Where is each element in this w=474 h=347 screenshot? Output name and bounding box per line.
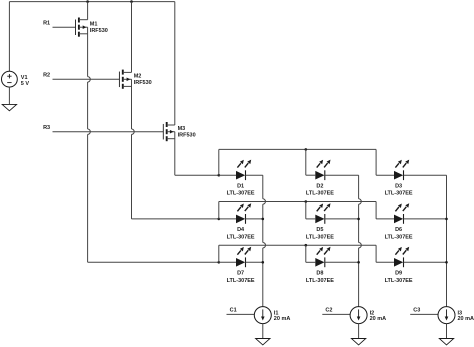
wire row 2 mid drop (305, 202, 307, 219)
ground I3 (439, 339, 453, 345)
label I2 20 mA (370, 311, 387, 322)
wire V1 positive lead (8, 2, 10, 72)
wire I1 to ground (262, 324, 264, 339)
svg-text:M1: M1 (90, 22, 98, 28)
node drain M2 on rail (130, 0, 133, 3)
node row 1 anode junction (218, 174, 221, 177)
wire row 1 right drop (375, 149, 377, 175)
node column C2 row3 junction (357, 261, 360, 264)
node row 3 anode junction (218, 261, 221, 264)
label D4 (227, 227, 255, 240)
label I3 20 mA (458, 311, 474, 322)
svg-text:D1: D1 (237, 183, 244, 189)
voltage source V1 5 V (1, 71, 17, 87)
wire row 1 riser (218, 149, 220, 175)
svg-text:R2: R2 (43, 73, 50, 79)
ground V1 (2, 104, 16, 110)
wire label stub C2 (322, 313, 350, 315)
LED D7 LTL-307EE (236, 247, 251, 268)
svg-text:IRF530: IRF530 (134, 80, 152, 86)
transistor M2 IRF530 (119, 70, 131, 89)
svg-text:D8: D8 (316, 270, 323, 276)
wire D9 cathode (404, 261, 447, 263)
svg-text:LTL-307EE: LTL-307EE (385, 234, 413, 240)
label D1 (227, 183, 255, 196)
svg-text:LTL-307EE: LTL-307EE (385, 191, 413, 197)
LED D6 LTL-307EE (394, 203, 409, 224)
current source I2 20 mA (350, 307, 367, 324)
node column C1 row2 junction (262, 218, 265, 221)
svg-text:R1: R1 (43, 21, 50, 27)
wire row 1 mid drop (305, 149, 307, 175)
wire D5 cathode (325, 218, 359, 220)
label D6 (385, 227, 413, 240)
wire label stub C1 (227, 313, 255, 315)
wire drain M1 to rail (87, 2, 89, 20)
wire row 2 bypass bus (219, 201, 376, 203)
node drain M1 on rail (86, 0, 89, 3)
wire column C2 vertical (358, 175, 360, 199)
wire V1 negative lead (8, 87, 10, 104)
wire row 2 anode stub (219, 218, 236, 220)
svg-text:5 V: 5 V (21, 81, 30, 87)
label D7 (227, 270, 255, 283)
label M2 IRF530 (134, 74, 152, 87)
LED D5 LTL-307EE (315, 203, 330, 224)
svg-text:D2: D2 (316, 183, 323, 189)
svg-text:D7: D7 (237, 270, 244, 276)
wire I2 to ground (358, 324, 360, 339)
svg-text:20 mA: 20 mA (274, 316, 291, 322)
LED D1 LTL-307EE (236, 160, 251, 181)
LED D2 LTL-307EE (315, 160, 330, 181)
ground I1 (256, 339, 270, 345)
wire D1 cathode (246, 174, 263, 176)
svg-text:IRF530: IRF530 (178, 133, 196, 139)
wire row 1 anode stub (219, 174, 236, 176)
wire row 3 anode stub (219, 261, 236, 263)
current source I3 20 mA (438, 307, 455, 324)
LED D9 LTL-307EE (394, 247, 409, 268)
wire row 2 riser (218, 202, 220, 219)
wire row 1 bypass bus (219, 148, 376, 150)
wire gate net R2 (53, 78, 120, 80)
label M3 IRF530 (178, 126, 196, 139)
wire row 3 right drop (375, 245, 377, 262)
label D8 (306, 270, 334, 283)
label I1 20 mA (274, 311, 291, 322)
svg-text:C1: C1 (230, 308, 237, 314)
svg-text:R3: R3 (43, 125, 50, 131)
node column C3 row2 junction (445, 218, 448, 221)
wire row 3 bypass bus (219, 244, 376, 246)
wire D3 cathode (404, 174, 447, 176)
node column C1 row3 junction (262, 261, 265, 264)
node row 2 anode junction (218, 218, 221, 221)
wire row 2 feed from M2 source (132, 218, 219, 220)
svg-text:M3: M3 (178, 126, 186, 132)
svg-text:LTL-307EE: LTL-307EE (306, 234, 334, 240)
svg-text:LTL-307EE: LTL-307EE (306, 191, 334, 197)
node row 2 mid tap (305, 200, 308, 203)
wire column C3 vertical (446, 175, 448, 306)
wire drain M2 to rail (131, 2, 133, 73)
ground I2 (351, 339, 365, 345)
wire D8 cathode (325, 261, 359, 263)
node column C3 row3 junction (445, 261, 448, 264)
svg-text:LTL-307EE: LTL-307EE (227, 278, 255, 284)
label D9 (385, 270, 413, 283)
node row 1 mid tap (305, 148, 308, 151)
label M1 IRF530 (90, 22, 108, 34)
svg-text:D9: D9 (395, 270, 402, 276)
current source I1 20 mA (254, 307, 271, 324)
wire gate net R1 (53, 26, 76, 28)
wire I3 to ground (446, 324, 448, 339)
wire source M1 down (87, 27, 89, 76)
wire label stub C3 (410, 313, 438, 315)
svg-text:LTL-307EE: LTL-307EE (227, 234, 255, 240)
wire row 3 mid drop (305, 245, 307, 262)
svg-text:20 mA: 20 mA (458, 316, 474, 322)
svg-text:D5: D5 (316, 227, 323, 233)
transistor M1 IRF530 (76, 18, 88, 37)
wire gate net R3 (53, 131, 164, 133)
node row 3 mid tap (305, 244, 308, 247)
label D5 (306, 227, 334, 240)
svg-text:D4: D4 (237, 227, 245, 233)
LED D8 LTL-307EE (315, 247, 330, 268)
wire D7 cathode (246, 261, 263, 263)
LED D4 LTL-307EE (236, 203, 251, 224)
label D2 (306, 183, 334, 196)
wire D4 cathode (246, 218, 263, 220)
svg-text:LTL-307EE: LTL-307EE (385, 278, 413, 284)
svg-text:C3: C3 (413, 308, 420, 314)
wire row 1 feed from M3 source (175, 174, 219, 176)
wire top supply rail (9, 1, 174, 3)
svg-text:D6: D6 (395, 227, 402, 233)
wire column C1 vertical (262, 175, 264, 199)
LED D3 LTL-307EE (394, 160, 409, 181)
wire source M2 down (131, 79, 133, 129)
label D3 (385, 183, 413, 196)
wire D6 cathode (404, 218, 447, 220)
svg-text:LTL-307EE: LTL-307EE (227, 191, 255, 197)
svg-text:LTL-307EE: LTL-307EE (306, 278, 334, 284)
wire drain M3 to rail (174, 2, 176, 125)
svg-text:20 mA: 20 mA (370, 316, 387, 322)
transistor M3 IRF530 (163, 122, 175, 141)
svg-text:C2: C2 (325, 308, 332, 314)
svg-text:D3: D3 (395, 183, 402, 189)
wire row 2 right drop (375, 202, 377, 219)
wire row 3 riser (218, 245, 220, 262)
svg-text:M2: M2 (134, 74, 142, 80)
wire row 3 feed from M1 source (88, 261, 219, 263)
node column C2 row2 junction (357, 218, 360, 221)
svg-text:IRF530: IRF530 (90, 28, 108, 34)
wire source M3 down (174, 132, 176, 176)
wire D2 cathode (325, 174, 359, 176)
